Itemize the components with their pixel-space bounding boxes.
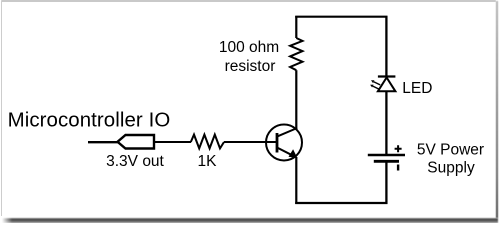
wire collector up	[295, 70, 297, 129]
wire LED to battery	[385, 91, 387, 154]
svg-text:LED: LED	[402, 80, 432, 97]
border frame left	[1, 1, 2, 216]
battery BT1 positive plate	[368, 154, 405, 157]
battery BT1 negative plate	[374, 160, 399, 163]
wire top right down to LED	[385, 16, 387, 77]
wire tag to resistor	[154, 141, 191, 143]
LED D1 triangle	[378, 78, 396, 92]
connector tag 3.3V out	[118, 135, 155, 149]
wire top rail	[295, 16, 387, 18]
wire resistor to base	[224, 141, 277, 143]
wire base input	[88, 141, 118, 143]
wire bottom rail	[295, 202, 387, 204]
resistor R2 100 ohm	[290, 38, 302, 70]
battery plus sign	[395, 145, 402, 152]
svg-text:5V Power: 5V Power	[417, 142, 484, 159]
svg-text:3.3V out: 3.3V out	[106, 153, 164, 170]
transistor Q1 circle	[266, 125, 302, 161]
transistor Q1 base bar	[276, 133, 279, 153]
transistor Q1 collector stroke	[277, 128, 297, 137]
transistor Q1 emitter stroke with arrow	[277, 148, 294, 157]
svg-text:Microcontroller IO: Microcontroller IO	[8, 108, 171, 131]
svg-text:100 ohm: 100 ohm	[219, 39, 279, 56]
svg-text:Supply: Supply	[427, 159, 475, 176]
wire battery to bottom rail	[385, 162, 387, 204]
border frame bottom shadow	[2, 218, 498, 223]
wire resistor to top rail	[295, 16, 297, 38]
LED D1 light arrow lower	[370, 85, 379, 90]
border frame right	[496, 1, 498, 218]
wire emitter down	[295, 157, 297, 204]
svg-text:resistor: resistor	[225, 58, 276, 75]
border frame top	[1, 0, 496, 2]
LED D1 light arrow upper	[371, 80, 380, 85]
svg-text:1K: 1K	[198, 153, 218, 170]
LED D1 cathode bar	[378, 75, 396, 77]
resistor R1 1K	[191, 135, 224, 149]
battery minus tick	[397, 165, 399, 171]
